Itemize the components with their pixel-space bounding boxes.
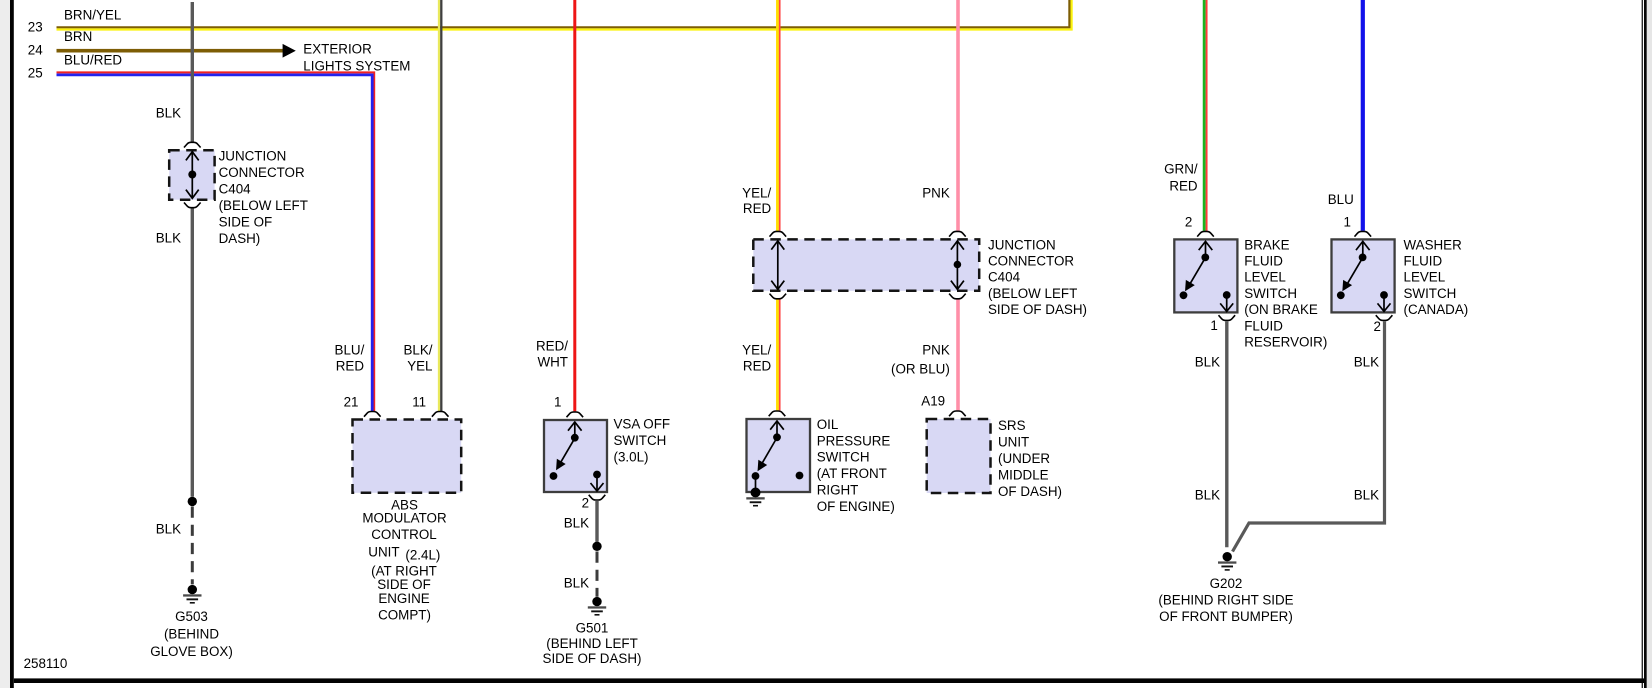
svg-text:EXTERIOR: EXTERIOR <box>303 41 372 56</box>
junction connector C404 (left, below left side of dash) <box>169 142 214 207</box>
svg-text:PNK: PNK <box>922 343 950 358</box>
label OIL PRESSURE SWITCH <box>817 417 895 514</box>
SRS unit box <box>927 411 991 493</box>
washer fluid level switch box <box>1332 231 1395 320</box>
label junction connector C404 left <box>219 149 308 247</box>
svg-text:FLUID: FLUID <box>1244 254 1283 269</box>
ground G501 <box>588 597 606 616</box>
svg-text:RED: RED <box>743 358 772 373</box>
svg-text:ENGINE: ENGINE <box>378 591 429 606</box>
svg-text:SIDE OF DASH): SIDE OF DASH) <box>543 651 642 666</box>
svg-text:1: 1 <box>554 394 561 409</box>
svg-text:COMPT): COMPT) <box>378 608 431 623</box>
ground at oil pressure switch <box>746 488 764 507</box>
label YEL/RED upper <box>742 185 771 216</box>
brake fluid level switch box <box>1174 231 1237 320</box>
svg-text:BLU/: BLU/ <box>335 343 365 358</box>
wire BLK vertical (G503 branch, upper) <box>191 2 194 142</box>
svg-text:SIDE OF: SIDE OF <box>219 215 273 230</box>
svg-text:(BEHIND RIGHT SIDE: (BEHIND RIGHT SIDE <box>1158 593 1293 608</box>
svg-text:LIGHTS SYSTEM: LIGHTS SYSTEM <box>303 59 410 74</box>
svg-text:11: 11 <box>412 395 426 410</box>
svg-text:PNK: PNK <box>922 185 950 200</box>
wire BLK vertical (below junction C404) <box>191 208 194 496</box>
svg-text:(CANADA): (CANADA) <box>1404 302 1469 317</box>
label PNK (OR BLU) lower <box>891 343 950 377</box>
wire GRN/RED vertical <box>1204 0 1206 231</box>
wire BLK/YEL vertical <box>439 0 441 411</box>
label WASHER FLUID LEVEL SWITCH (CANADA) <box>1404 237 1469 317</box>
label EXTERIOR LIGHTS SYSTEM <box>303 41 410 73</box>
label SRS UNIT <box>998 418 1062 499</box>
svg-text:OF FRONT BUMPER): OF FRONT BUMPER) <box>1159 609 1293 624</box>
oil pressure switch box <box>747 411 811 492</box>
right black border bar <box>1644 0 1647 688</box>
left gray margin strip <box>0 0 10 688</box>
svg-text:C404: C404 <box>219 182 252 197</box>
svg-text:BLK: BLK <box>156 106 181 121</box>
label ABS modulator control unit <box>362 497 447 622</box>
svg-text:CONNECTOR: CONNECTOR <box>988 254 1074 269</box>
label BRAKE FLUID LEVEL SWITCH <box>1244 237 1327 349</box>
svg-text:23: 23 <box>28 20 43 35</box>
svg-text:(OR BLU): (OR BLU) <box>891 362 950 377</box>
wire PNK (OR BLU) vertical lower <box>956 300 960 411</box>
svg-text:FLUID: FLUID <box>1404 254 1443 269</box>
ground G503 <box>183 585 201 604</box>
svg-text:SWITCH: SWITCH <box>1244 286 1297 301</box>
label G501 (BEHIND LEFT SIDE OF DASH) <box>543 621 642 666</box>
svg-text:GRN/: GRN/ <box>1164 162 1198 177</box>
ABS modulator control unit box <box>353 412 462 493</box>
svg-text:RIGHT: RIGHT <box>817 482 859 497</box>
svg-text:G501: G501 <box>576 621 609 636</box>
svg-text:BLU/RED: BLU/RED <box>64 53 122 68</box>
VSA OFF switch box <box>544 412 607 500</box>
svg-text:C404: C404 <box>988 270 1021 285</box>
wire YEL/RED vertical lower <box>778 300 780 411</box>
svg-text:SWITCH: SWITCH <box>817 450 870 465</box>
splice node on VSA BLK wire <box>592 542 601 551</box>
svg-text:BLK: BLK <box>156 522 181 537</box>
wire row 25 BLU/RED horizontal then down <box>57 72 375 411</box>
svg-text:(ON BRAKE: (ON BRAKE <box>1244 302 1318 317</box>
svg-text:JUNCTION: JUNCTION <box>219 149 287 164</box>
label G503 (BEHIND GLOVE BOX) <box>150 609 233 659</box>
svg-text:G202: G202 <box>1210 576 1243 591</box>
svg-text:SRS: SRS <box>998 418 1026 433</box>
svg-text:MODULATOR: MODULATOR <box>362 511 447 526</box>
svg-text:OIL: OIL <box>817 417 839 432</box>
svg-text:BLK: BLK <box>156 231 181 246</box>
svg-text:SWITCH: SWITCH <box>614 433 667 448</box>
svg-text:(AT FRONT: (AT FRONT <box>817 466 887 481</box>
svg-text:2: 2 <box>1185 215 1192 230</box>
svg-text:SIDE OF: SIDE OF <box>377 577 431 592</box>
wire YEL/RED vertical upper <box>778 0 780 231</box>
svg-text:24: 24 <box>28 42 43 57</box>
label GRN/RED wire <box>1164 162 1198 194</box>
label G202 (BEHIND RIGHT SIDE OF FRONT BUMPER) <box>1158 576 1293 624</box>
splice node on BLK wire <box>188 497 197 506</box>
label RED/WHT wire <box>536 339 568 370</box>
svg-text:JUNCTION: JUNCTION <box>988 237 1056 252</box>
svg-text:UNIT: UNIT <box>998 434 1029 449</box>
wire PNK vertical upper <box>956 0 960 231</box>
svg-text:(3.0L): (3.0L) <box>614 449 649 464</box>
svg-text:(BELOW LEFT: (BELOW LEFT <box>988 286 1077 301</box>
svg-text:BRN/YEL: BRN/YEL <box>64 8 121 23</box>
wire BLK below washer fluid level switch with corner to ground <box>1233 321 1385 551</box>
svg-text:CONTROL: CONTROL <box>371 527 436 542</box>
svg-text:2: 2 <box>1374 319 1381 334</box>
svg-text:RED: RED <box>336 358 365 373</box>
svg-text:(2.4L): (2.4L) <box>405 548 440 563</box>
svg-text:BLU: BLU <box>1328 192 1354 207</box>
svg-text:(BEHIND LEFT: (BEHIND LEFT <box>546 636 638 651</box>
junction connector C404 (wide, below left side of dash) <box>753 231 979 298</box>
ground G202 <box>1218 552 1236 571</box>
svg-text:G503: G503 <box>175 609 208 624</box>
svg-text:BRAKE: BRAKE <box>1244 237 1289 252</box>
label YEL/RED lower <box>742 343 771 374</box>
left black border bar <box>10 0 14 688</box>
svg-text:RED: RED <box>1169 179 1198 194</box>
bottom black border bar <box>14 678 1644 683</box>
svg-text:25: 25 <box>28 65 43 80</box>
svg-text:BLK: BLK <box>564 576 589 591</box>
svg-text:LEVEL: LEVEL <box>1244 270 1286 285</box>
svg-text:OF ENGINE): OF ENGINE) <box>817 499 895 514</box>
svg-text:BLK: BLK <box>1195 488 1220 503</box>
svg-text:21: 21 <box>344 395 359 410</box>
wire BLK below VSA switch <box>595 501 598 542</box>
svg-text:BLK: BLK <box>1195 355 1220 370</box>
svg-text:A19: A19 <box>921 394 945 409</box>
svg-text:DASH): DASH) <box>219 231 261 246</box>
svg-text:2: 2 <box>582 495 589 510</box>
svg-text:YEL/: YEL/ <box>742 343 771 358</box>
wire BLK dashed segment to G503 <box>191 507 194 585</box>
svg-text:RESERVOIR): RESERVOIR) <box>1244 335 1327 350</box>
right gray margin strip <box>1647 0 1652 688</box>
svg-text:RED/: RED/ <box>536 339 568 354</box>
svg-text:YEL: YEL <box>407 358 432 373</box>
svg-text:LEVEL: LEVEL <box>1404 270 1446 285</box>
svg-text:258110: 258110 <box>24 656 68 671</box>
svg-text:WHT: WHT <box>538 355 569 370</box>
svg-text:SWITCH: SWITCH <box>1404 286 1457 301</box>
svg-text:1: 1 <box>1210 318 1217 333</box>
svg-text:BLK: BLK <box>564 515 589 530</box>
label BLU/RED at ABS pin 21 <box>335 343 365 374</box>
svg-text:YEL/: YEL/ <box>742 185 771 200</box>
svg-text:BLK: BLK <box>1354 355 1379 370</box>
wire row 24 BRN horizontal <box>57 49 284 53</box>
svg-text:RED: RED <box>743 201 772 216</box>
right black border line <box>1642 0 1643 688</box>
wire row 23 BRN/YEL horizontal then up <box>57 0 1072 30</box>
svg-text:(UNDER: (UNDER <box>998 451 1050 466</box>
wire RED/WHT vertical <box>573 0 576 411</box>
svg-text:OF DASH): OF DASH) <box>998 484 1062 499</box>
svg-text:1: 1 <box>1344 215 1351 230</box>
svg-text:(BELOW LEFT: (BELOW LEFT <box>219 198 308 213</box>
svg-text:(BEHIND: (BEHIND <box>164 627 219 642</box>
svg-text:MIDDLE: MIDDLE <box>998 467 1049 482</box>
wire BLK dashed segment to G501 <box>596 552 599 597</box>
label VSA OFF SWITCH (3.0L) <box>614 417 671 465</box>
svg-text:BLK: BLK <box>1354 488 1379 503</box>
svg-text:CONNECTOR: CONNECTOR <box>219 165 305 180</box>
svg-text:UNIT: UNIT <box>368 544 399 559</box>
label junction connector C404 wide <box>988 237 1087 317</box>
svg-text:SIDE OF DASH): SIDE OF DASH) <box>988 302 1087 317</box>
svg-text:BRN: BRN <box>64 29 92 44</box>
svg-text:VSA OFF: VSA OFF <box>614 417 671 432</box>
arrowhead to exterior lights system <box>283 44 296 58</box>
label BLK/YEL at ABS pin 11 <box>403 343 432 374</box>
svg-text:GLOVE BOX): GLOVE BOX) <box>150 644 233 659</box>
wire BLK below brake fluid level switch <box>1225 321 1228 547</box>
svg-text:PRESSURE: PRESSURE <box>817 433 891 448</box>
svg-text:WASHER: WASHER <box>1404 237 1463 252</box>
wire BLU vertical <box>1361 0 1365 231</box>
svg-text:FLUID: FLUID <box>1244 318 1283 333</box>
svg-text:BLK/: BLK/ <box>403 343 432 358</box>
